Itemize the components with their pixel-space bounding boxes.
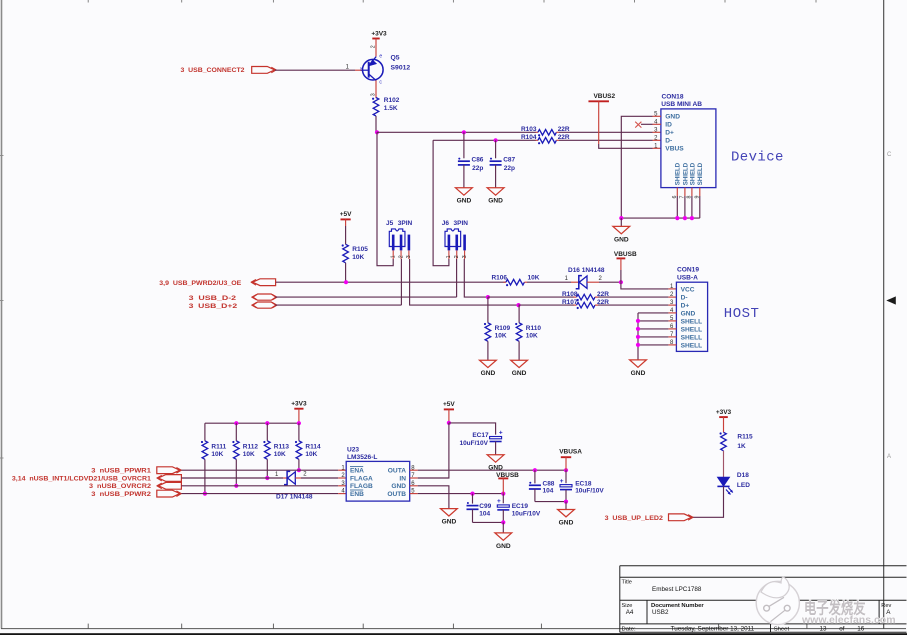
resistor R114 body xyxy=(295,441,302,460)
svg-text:GND: GND xyxy=(496,543,511,550)
wire FLAGA row left xyxy=(181,477,283,479)
svg-text:104: 104 xyxy=(543,488,554,495)
VBUSB stem switch xyxy=(502,478,504,493)
svg-text:10K: 10K xyxy=(274,451,286,458)
svg-text:LED: LED xyxy=(737,482,750,489)
svg-text:GND: GND xyxy=(631,370,646,377)
frame left zone ticks xyxy=(0,156,4,459)
junction R114 ENA row xyxy=(297,468,301,472)
wire R114 down xyxy=(298,459,300,470)
junction C88 xyxy=(533,468,537,472)
capacitor C87 body xyxy=(490,158,502,165)
svg-text:b: b xyxy=(360,67,363,73)
svg-text:VCC: VCC xyxy=(681,286,695,293)
power VBUSA xyxy=(559,449,582,458)
CON18 shield pin8 stub xyxy=(691,188,693,196)
wire to C86 xyxy=(463,132,465,158)
ground C86 xyxy=(456,188,473,205)
port symbol nUSB_PPWR1 xyxy=(157,467,182,474)
port symbol nUSB_OVRCR2 xyxy=(157,482,182,489)
ground CON18 xyxy=(613,226,630,243)
junction EC18 / VBUSA xyxy=(564,468,568,472)
junction rail R113 xyxy=(265,421,269,425)
svg-text:VBUS: VBUS xyxy=(665,146,684,153)
R103 pin stub right xyxy=(556,131,559,133)
svg-text:Date:: Date: xyxy=(622,627,636,633)
svg-text:D16 1N4148: D16 1N4148 xyxy=(568,267,605,274)
svg-text:Device: Device xyxy=(731,150,784,166)
wire D18 to port xyxy=(692,486,724,517)
resistor R113 10K xyxy=(263,441,289,460)
svg-text:R109: R109 xyxy=(495,325,511,332)
capacitor C88 104 xyxy=(529,480,555,494)
svg-text:R103: R103 xyxy=(521,126,537,133)
svg-text:22p: 22p xyxy=(504,165,515,172)
svg-text:A: A xyxy=(887,454,891,460)
wire R107 to CON19 D+ xyxy=(598,304,668,306)
resistor R104 22R xyxy=(521,134,570,144)
svg-text:R113: R113 xyxy=(274,443,290,450)
svg-text:FLAGB: FLAGB xyxy=(350,483,373,490)
port symbol USB_PWRD2/U3_OE xyxy=(251,279,276,286)
op-amp U23 LM3526-L xyxy=(341,446,415,501)
svg-text:Tuesday, September 13, 2011: Tuesday, September 13, 2011 xyxy=(671,626,755,633)
wire C88 EC18 ground bus xyxy=(535,501,566,503)
svg-text:GND: GND xyxy=(665,114,680,121)
svg-text:ENA: ENA xyxy=(350,468,364,475)
watermark elecfans logo xyxy=(756,577,799,624)
svg-text:10K: 10K xyxy=(526,332,538,339)
junction R110 / D+ host line xyxy=(516,303,520,307)
wire CON19 pin7 xyxy=(638,336,668,338)
svg-text:EC19: EC19 xyxy=(512,503,529,510)
wire FLAGB row xyxy=(181,485,338,487)
wire CON19 pin4 xyxy=(638,312,668,314)
svg-text:R110: R110 xyxy=(526,325,542,332)
junction shield pin6 xyxy=(675,216,679,220)
wire pullup rail xyxy=(205,422,299,424)
+3V3 stem pullups xyxy=(298,409,300,424)
wire to EC19 GND symbol xyxy=(502,522,504,533)
wire to R110 xyxy=(518,305,520,323)
svg-text:USB-A: USB-A xyxy=(677,274,698,281)
Q5 emitter pin to +3V3 xyxy=(375,39,377,57)
wire shield pin9 xyxy=(699,196,701,218)
svg-text:13: 13 xyxy=(820,626,828,633)
Q5 base pin stub xyxy=(355,69,363,71)
svg-text:of: of xyxy=(839,626,845,633)
wire USB_D+2 bus xyxy=(275,304,401,306)
wire R112 down xyxy=(235,459,237,486)
svg-text:GND: GND xyxy=(457,198,472,205)
svg-text:3PIN: 3PIN xyxy=(398,220,413,227)
svg-text:OUTA: OUTA xyxy=(388,468,406,475)
junction shield pin7 xyxy=(683,216,687,220)
power VBUSB xyxy=(496,472,519,479)
junction shield pin8 xyxy=(690,216,694,220)
svg-text:GND: GND xyxy=(391,483,406,490)
frame top zone ticks xyxy=(88,0,816,3)
svg-text:10K: 10K xyxy=(243,451,255,458)
ground EC17 xyxy=(487,455,504,472)
capacitor EC19 body xyxy=(497,498,509,510)
frame bottom zone ticks xyxy=(88,624,807,629)
U23 right pin stub xyxy=(410,477,418,479)
ground U23 xyxy=(441,509,458,526)
R104 pin stub right xyxy=(556,139,559,141)
wire EC19 down xyxy=(502,510,504,523)
connector CON19 USB-A xyxy=(670,266,708,351)
CON19 pin4 stub xyxy=(668,312,676,314)
resistor R112 10K xyxy=(232,441,258,460)
junction R113 FLAGA row xyxy=(265,476,269,480)
svg-text:GND: GND xyxy=(481,370,496,377)
junction R109 / D- host line xyxy=(486,295,490,299)
frame right zone marker arrow xyxy=(886,296,896,304)
svg-text:Q5: Q5 xyxy=(391,54,400,61)
wire rail to R112 xyxy=(235,423,237,441)
wire ENB row xyxy=(182,493,339,495)
wire R109 to GND xyxy=(487,341,489,360)
wire to R109 xyxy=(487,297,489,323)
capacitor EC17 body xyxy=(490,430,503,442)
U23 left pin stub xyxy=(338,469,346,471)
svg-text:C86: C86 xyxy=(472,157,484,164)
wire R102 to D+ line xyxy=(375,116,377,132)
svg-text:6: 6 xyxy=(672,196,678,199)
wire CON19 pin6 xyxy=(638,328,668,330)
wire C99 EC19 ground bus xyxy=(473,521,504,523)
wire D- device line left xyxy=(433,139,536,141)
junction CON19 pin5 xyxy=(636,319,640,323)
svg-text:+5V: +5V xyxy=(340,211,352,218)
frame right border xyxy=(883,0,885,629)
wire to C99 xyxy=(472,494,474,504)
svg-text:LM3526-L: LM3526-L xyxy=(347,454,377,461)
svg-text:R107: R107 xyxy=(562,299,578,306)
wire to CON18 GND symbol xyxy=(620,218,622,226)
jumper J5 3PIN xyxy=(386,220,413,259)
wire shield pin8 xyxy=(691,196,693,218)
svg-text:VBUS2: VBUS2 xyxy=(593,93,615,100)
U23 left pin stub xyxy=(338,493,346,495)
svg-text:2: 2 xyxy=(398,255,404,258)
port symbol USB_CONNECT2 xyxy=(252,67,277,74)
svg-text:C88: C88 xyxy=(543,480,555,487)
diode D17 body xyxy=(284,471,295,484)
svg-text:C99: C99 xyxy=(479,503,491,510)
svg-text:3PIN: 3PIN xyxy=(454,220,469,227)
port symbol nUSB_PPWR2 xyxy=(157,490,182,497)
D17 pin1 stub xyxy=(283,477,287,479)
CON18 shield pin9 stub xyxy=(699,188,701,196)
U23 right pin stub xyxy=(410,469,418,471)
svg-text:D+: D+ xyxy=(665,130,674,137)
VBUS2 stem xyxy=(598,101,600,144)
resistor R112 body xyxy=(232,441,239,460)
page bottom black bar xyxy=(0,633,907,635)
resistor R111 body xyxy=(201,441,208,460)
wire to C87 xyxy=(495,140,497,158)
resistor R102 body xyxy=(372,98,379,117)
svg-text:VBUSA: VBUSA xyxy=(559,449,582,456)
junction C99 xyxy=(470,492,474,496)
VBUSA stem xyxy=(565,457,567,470)
capacitor C99 104 xyxy=(467,502,492,517)
CON19 pin6 stub xyxy=(668,328,676,330)
resistor R103 body xyxy=(538,130,557,137)
svg-text:SHIELD: SHIELD xyxy=(697,162,704,185)
junction R112 FLAGB row xyxy=(234,484,238,488)
svg-text:Title: Title xyxy=(622,579,632,585)
svg-text:U23: U23 xyxy=(347,446,359,453)
frame left border xyxy=(1,0,3,629)
svg-text:3,14 nUSB_INT1/LCDVD21/USB_OV: 3,14 nUSB_INT1/LCDVD21/USB_OVRCR1 xyxy=(12,475,151,482)
wire U23 GND pin xyxy=(418,486,449,509)
svg-text:+3V3: +3V3 xyxy=(291,401,307,408)
capacitor EC19 10uF/10V xyxy=(497,498,541,517)
resistor R113 body xyxy=(263,441,270,460)
wire OUTB to VBUSB xyxy=(418,493,504,495)
ground EC19 xyxy=(495,533,512,550)
wire EC18 down xyxy=(565,490,567,502)
svg-text:R111: R111 xyxy=(211,443,226,450)
svg-text:Sheet: Sheet xyxy=(774,627,790,633)
junction rail R114 xyxy=(297,421,301,425)
svg-text:C87: C87 xyxy=(503,157,515,164)
resistor R114 10K xyxy=(295,441,321,460)
svg-text:3 nUSB_PPWR2: 3 nUSB_PPWR2 xyxy=(91,491,151,498)
svg-text:OUTB: OUTB xyxy=(387,491,406,498)
svg-text:10K: 10K xyxy=(305,451,317,458)
CON19 pin5 stub xyxy=(668,320,676,322)
CON18 pin5 stub xyxy=(653,115,661,117)
CON18 shield pin7 stub xyxy=(684,188,686,196)
junction C87 / D- line xyxy=(494,138,498,142)
capacitor C87 22p xyxy=(490,157,516,172)
resistor R102 1.5K xyxy=(372,97,400,116)
wire to C88 xyxy=(534,470,536,483)
junction C86 / D+ line xyxy=(462,130,466,134)
no-connect X on CON18 ID pin xyxy=(635,122,641,128)
resistor R115 1K xyxy=(720,432,753,451)
svg-text:D17 1N4148: D17 1N4148 xyxy=(276,493,313,500)
svg-text:R106: R106 xyxy=(491,275,507,282)
CON18 pin3 stub xyxy=(653,131,661,133)
svg-text:CON18: CON18 xyxy=(662,93,684,100)
svg-text:ID: ID xyxy=(665,122,672,129)
CON19 pin7 stub xyxy=(668,336,676,338)
svg-text:D-: D- xyxy=(681,295,688,302)
svg-text:SHIELD: SHIELD xyxy=(689,162,696,185)
svg-text:FLAGA: FLAGA xyxy=(350,475,373,482)
CON18 pin1 stub xyxy=(653,147,661,149)
svg-text:R105: R105 xyxy=(352,246,368,253)
wire OUTA to VBUSA xyxy=(418,469,566,471)
resistor R103 22R xyxy=(521,126,570,136)
wire +5V to U23 IN xyxy=(418,423,449,478)
junction R111 ENB row xyxy=(203,492,207,496)
wire C86 to GND xyxy=(463,165,465,188)
wire ENA row xyxy=(182,469,339,471)
svg-text:D-: D- xyxy=(665,138,672,145)
jumper J6 3PIN xyxy=(442,220,469,259)
svg-text:CON19: CON19 xyxy=(677,266,699,273)
svg-text:J5: J5 xyxy=(386,220,394,227)
port symbol USB_D-2 xyxy=(251,294,277,300)
svg-text:www.elecfans.com: www.elecfans.com xyxy=(801,614,896,626)
svg-text:104: 104 xyxy=(479,510,490,517)
svg-text:EC17: EC17 xyxy=(472,432,489,439)
junction CON19 pin7 xyxy=(636,335,640,339)
power +3V3 xyxy=(291,401,307,409)
svg-text:SHELL: SHELL xyxy=(681,334,703,341)
resistor R109 body xyxy=(484,323,491,342)
junction VBUSB / VCC xyxy=(619,280,623,284)
diode D17 1N4148 xyxy=(275,471,313,500)
svg-text:SHELL: SHELL xyxy=(681,318,703,325)
svg-text:1.5K: 1.5K xyxy=(384,105,398,112)
resistor R107 body xyxy=(577,302,596,309)
R103 pin stub left xyxy=(536,131,539,133)
junction CON19 pin6 xyxy=(636,327,640,331)
svg-text:1: 1 xyxy=(446,255,452,258)
svg-text:J6: J6 xyxy=(442,220,450,227)
D17 pin2 stub xyxy=(295,477,301,479)
wire J5 pin2 down xyxy=(400,259,402,305)
capacitor C86 22p xyxy=(458,157,484,172)
wire USB_D-2 bus xyxy=(275,296,456,298)
wire J6 pin2 down xyxy=(456,259,458,297)
svg-text:3 USB_D+2: 3 USB_D+2 xyxy=(189,303,238,310)
wire D+ device line left xyxy=(377,131,536,133)
svg-text:SHIELD: SHIELD xyxy=(675,162,682,185)
wire VBUS2 to CON18 VBUS xyxy=(599,144,653,148)
svg-text:GND: GND xyxy=(681,310,696,317)
port symbol USB_D+2 xyxy=(251,302,277,308)
svg-text:D+: D+ xyxy=(681,303,690,310)
ground R110 xyxy=(511,360,528,377)
D16 pin2 stub xyxy=(587,281,599,283)
junction EC18 ground xyxy=(564,500,568,504)
port symbol USB_UP_LED2 xyxy=(669,514,694,521)
CON19 pin2 stub xyxy=(668,296,676,298)
svg-text:ENB: ENB xyxy=(350,491,364,498)
svg-text:e: e xyxy=(379,53,382,59)
svg-text:SHELL: SHELL xyxy=(681,342,703,349)
svg-text:22p: 22p xyxy=(472,165,483,172)
R108 pin stub right xyxy=(595,296,598,298)
wire +5V to EC17 xyxy=(449,423,496,435)
junction CON19 pin8 xyxy=(636,343,640,347)
ground EC18 xyxy=(558,510,575,527)
resistor R111 10K xyxy=(201,441,227,460)
resistor R109 10K xyxy=(484,323,511,342)
svg-text:10uF/10V: 10uF/10V xyxy=(512,510,541,517)
capacitor C86 body xyxy=(458,158,470,165)
capacitor C88 body xyxy=(529,482,541,489)
wire R105 to PWRD2 bus xyxy=(345,263,347,282)
wire J5 pin3 to R107 xyxy=(410,259,519,305)
LED D18 xyxy=(717,472,750,495)
wire R115 to D18 xyxy=(723,451,725,477)
CON19 pin3 stub xyxy=(668,304,676,306)
svg-text:+3V3: +3V3 xyxy=(371,30,387,37)
wire to R107 xyxy=(519,304,575,306)
wire CON18 GND pin5 down xyxy=(621,116,652,218)
svg-text:16: 16 xyxy=(857,626,865,633)
+3V3 stem LED xyxy=(723,417,725,432)
D16 pin1 stub xyxy=(571,281,579,283)
wire rail to R113 xyxy=(266,423,268,441)
wire R106 to D16 xyxy=(527,281,571,283)
svg-text:GND: GND xyxy=(442,519,457,526)
svg-text:3: 3 xyxy=(370,93,376,96)
power +3V3 xyxy=(716,409,732,417)
resistor R107 22R xyxy=(562,299,609,309)
+5V stem U23 xyxy=(448,409,450,423)
capacitor EC17 10uF/10V xyxy=(459,430,502,448)
svg-text:10K: 10K xyxy=(495,332,507,339)
wire USB_CONNECT2 to Q5 base xyxy=(275,69,355,71)
CON18 shield pin6 stub xyxy=(676,188,678,196)
transistor Q5 S9012 xyxy=(360,45,410,96)
+5V stem xyxy=(345,219,347,226)
junction R102 / D+ line xyxy=(375,130,379,134)
wire shield pin7 xyxy=(684,196,686,218)
resistor R110 10K xyxy=(515,323,541,342)
wire to EC18 xyxy=(565,470,567,483)
resistor R106 10K xyxy=(491,275,539,287)
svg-text:Rev: Rev xyxy=(881,603,891,609)
junction shield bus left xyxy=(619,216,623,220)
U23 right pin stub xyxy=(410,493,418,495)
wire rail to R114 xyxy=(298,423,300,441)
svg-text:3: 3 xyxy=(406,255,412,258)
wire rail to R111 xyxy=(204,423,206,441)
junction +5V / IN / EC17 xyxy=(447,421,451,425)
junction EC19 / VBUSB xyxy=(501,492,505,496)
svg-text:A4: A4 xyxy=(626,609,634,616)
wire FLAGA row right xyxy=(301,477,338,479)
wire J5 pin1 to D+ line xyxy=(377,132,393,265)
wire R104 to CON18 D- xyxy=(559,139,653,141)
svg-text:3,9 USB_PWRD2/U3_OE: 3,9 USB_PWRD2/U3_OE xyxy=(159,280,242,287)
svg-text:EC18: EC18 xyxy=(575,480,592,487)
wire R111 down xyxy=(204,459,206,493)
port symbol nUSB_INT1/LCDVD21/USB_OVRCR1 xyxy=(157,475,182,482)
ground C87 xyxy=(487,188,504,205)
frame bottom border xyxy=(1,628,906,630)
wire CON19 pin5 xyxy=(638,320,668,322)
power VBUS2 xyxy=(588,93,615,101)
svg-text:3 nUSB_OVRCR2: 3 nUSB_OVRCR2 xyxy=(89,483,151,490)
svg-text:R104: R104 xyxy=(521,134,537,141)
resistor R106 body xyxy=(506,279,525,286)
capacitor EC18 10uF/10V xyxy=(560,478,605,495)
VBUSB stem xyxy=(620,258,622,270)
wire to EC18 GND symbol xyxy=(565,502,567,510)
svg-text:R115: R115 xyxy=(737,433,753,440)
svg-text:R102: R102 xyxy=(384,97,400,104)
wire USB_PWRD2 bus xyxy=(276,281,506,283)
U23 right pin stub xyxy=(410,485,418,487)
svg-text:+5V: +5V xyxy=(443,401,455,408)
wire +5V to R105 xyxy=(345,226,347,244)
CON18 pin2 stub xyxy=(653,139,661,141)
title block text xyxy=(622,579,892,632)
svg-text:GND: GND xyxy=(488,198,503,205)
